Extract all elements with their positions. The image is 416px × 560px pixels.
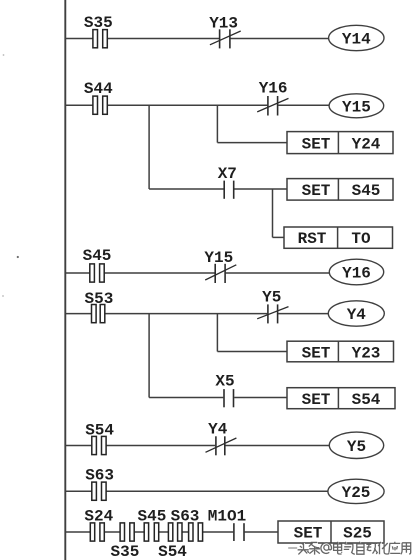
coil Y14 <box>329 25 384 50</box>
contact S63 (NO, series) <box>189 523 203 541</box>
contact Y15 (NC) <box>205 264 236 283</box>
stray dot speck <box>17 256 19 258</box>
svg-text:Y5: Y5 <box>262 288 281 306</box>
svg-text:SET: SET <box>302 344 331 362</box>
svg-text:SET: SET <box>302 391 331 409</box>
svg-text:X7: X7 <box>218 165 237 183</box>
svg-text:TO: TO <box>351 230 371 248</box>
contact Y16 (NC) <box>257 96 288 116</box>
coil Y4 <box>328 301 384 326</box>
svg-text:Y5: Y5 <box>347 438 366 456</box>
svg-text:S54: S54 <box>352 391 381 409</box>
wire to SET Y23 <box>217 351 287 353</box>
branch vertical to SET Y23 line <box>216 314 218 352</box>
svg-text:Y24: Y24 <box>352 135 381 153</box>
watermark glyph zi <box>357 542 365 555</box>
watermark glyph dong <box>366 543 378 554</box>
watermark 头条@电气自动化应用 (vector approximation) <box>288 542 411 556</box>
svg-text:Y23: Y23 <box>352 344 381 362</box>
watermark glyph at <box>321 543 332 554</box>
contact Y5 (NC) <box>257 304 288 323</box>
junction vertical to RST T0 <box>272 189 274 237</box>
watermark dash <box>288 547 297 549</box>
coil Y15 <box>329 94 384 118</box>
contact S45 (NO) <box>90 264 104 282</box>
svg-text:Y16: Y16 <box>342 265 371 283</box>
rung 3 wire <box>65 272 329 274</box>
contact S45 (NO, series) <box>144 523 159 541</box>
svg-text:S63: S63 <box>171 508 200 526</box>
svg-text:S25: S25 <box>343 525 372 543</box>
svg-text:M1O1: M1O1 <box>208 508 246 526</box>
svg-text:S44: S44 <box>84 80 113 98</box>
contact Y4 (NC) <box>206 436 237 455</box>
faint speck <box>2 295 4 297</box>
SET Y23 instruction box <box>287 341 394 362</box>
SET Y24 instruction box <box>287 132 393 154</box>
contact S63 (NO) <box>92 482 106 500</box>
coil Y16 <box>329 259 383 285</box>
svg-text:S24: S24 <box>84 508 113 526</box>
rung 4 wire <box>65 313 328 315</box>
wire to SET Y24 <box>217 142 287 144</box>
svg-text:S45: S45 <box>137 508 166 526</box>
branch vertical to X7 line <box>148 105 150 189</box>
coil Y5 <box>329 432 383 458</box>
faint speck <box>3 54 5 56</box>
left power rail <box>64 0 66 560</box>
svg-text:Y13: Y13 <box>209 15 238 33</box>
watermark glyph hua <box>378 542 390 555</box>
svg-text:S54: S54 <box>85 421 114 439</box>
contact X7 (NO) <box>224 181 234 199</box>
svg-text:Y14: Y14 <box>342 31 371 49</box>
contact S35 (NO, series) <box>120 523 134 541</box>
svg-text:SET: SET <box>302 135 331 153</box>
branch vertical to SET Y24 line <box>216 105 218 142</box>
watermark glyph qi <box>344 542 356 555</box>
contact M101 (NO) <box>234 523 244 541</box>
contact S53 (NO) <box>92 305 105 323</box>
rung 5 wire <box>65 445 329 447</box>
contact S54 (NO) <box>92 436 106 454</box>
contact S35 (NO) <box>93 30 107 48</box>
rung 1 wire <box>65 38 329 40</box>
coil Y25 <box>328 479 384 503</box>
SET S45 instruction box <box>287 179 393 201</box>
SET S25 instruction box <box>278 521 384 543</box>
contact S54 (NO, series) <box>168 523 182 541</box>
svg-text:Y15: Y15 <box>342 98 371 116</box>
watermark glyph yong <box>401 543 412 555</box>
svg-text:Y15: Y15 <box>204 249 233 267</box>
wire to RST T0 <box>273 236 285 238</box>
svg-text:S35: S35 <box>84 14 113 32</box>
contact Y13 (NC) <box>210 29 241 48</box>
svg-text:SET: SET <box>302 182 331 200</box>
contact S44 (NO) <box>93 96 107 114</box>
svg-text:S53: S53 <box>84 290 113 308</box>
svg-text:Y4: Y4 <box>347 306 367 324</box>
svg-text:Y16: Y16 <box>259 79 288 97</box>
watermark glyph tou <box>298 542 310 555</box>
rung 2 wire <box>65 104 329 106</box>
contact X5 (NO) <box>224 389 234 407</box>
rung 7 wire <box>65 531 278 533</box>
watermark glyph ying <box>389 542 401 554</box>
RST T0 instruction box <box>284 227 393 248</box>
contact S24 (NO) <box>90 523 104 541</box>
watermark glyph tiao <box>309 542 321 555</box>
SET S54 instruction box <box>287 388 395 409</box>
svg-text:S45: S45 <box>83 247 112 265</box>
svg-text:Y25: Y25 <box>342 484 371 502</box>
branch vertical to X5 line <box>148 314 150 398</box>
svg-text:X5: X5 <box>215 373 234 391</box>
svg-text:S35: S35 <box>110 543 139 560</box>
svg-text:SET: SET <box>294 525 323 543</box>
X5 branch wire <box>149 397 287 399</box>
X7 branch wire <box>149 188 287 190</box>
svg-text:S54: S54 <box>158 543 187 560</box>
rung 6 wire <box>65 490 328 492</box>
svg-text:S63: S63 <box>85 466 114 484</box>
watermark glyph dian <box>334 542 343 555</box>
svg-text:Y4: Y4 <box>208 420 228 438</box>
svg-text:S45: S45 <box>352 182 381 200</box>
svg-text:RST: RST <box>298 230 327 248</box>
